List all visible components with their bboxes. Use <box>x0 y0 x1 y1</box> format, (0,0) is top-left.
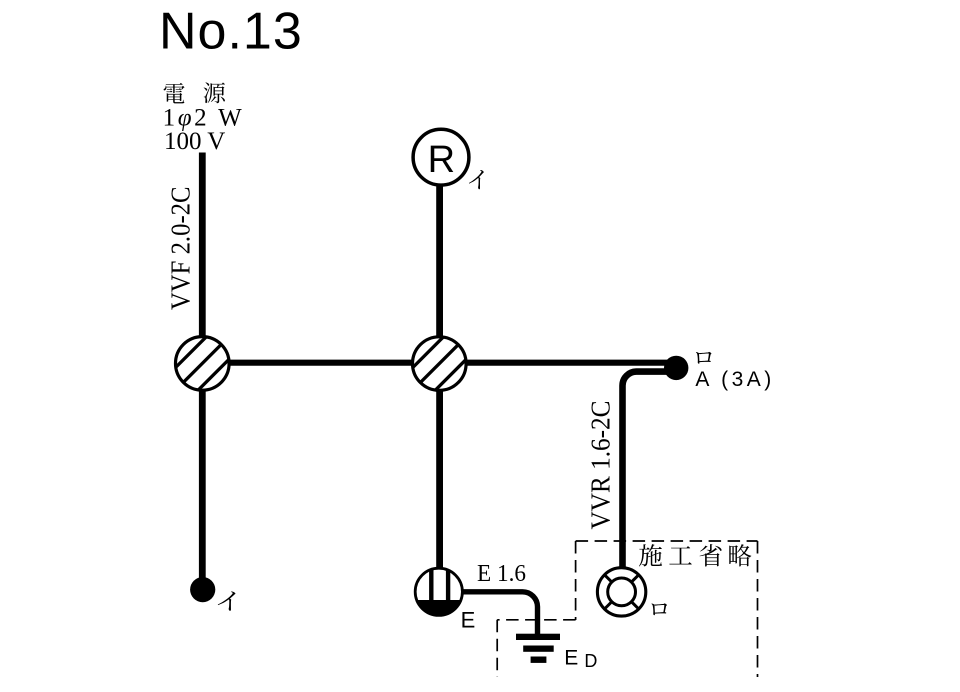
lamp R (circle symbol) <box>413 129 469 185</box>
svg-text:VVF 2.0-2C: VVF 2.0-2C <box>165 187 195 311</box>
lamp-position dot イ (bottom left) <box>190 577 215 602</box>
wire VVR curve from dot to ceiling light <box>623 372 671 567</box>
svg-text:100 V: 100 V <box>164 128 225 155</box>
wire R to J2 to outlet (center vertical) <box>436 185 443 570</box>
svg-text:D: D <box>584 651 597 671</box>
ceiling light ロ (double circle with spokes) <box>597 568 645 616</box>
wire source to junction J1 to lamp-dot イ (left vertical) <box>199 153 206 590</box>
wire main horizontal J1-J2-dot <box>202 360 676 366</box>
label 施工省略 <box>639 544 751 566</box>
node dot with pull switch A (3A) <box>664 356 688 380</box>
label ED <box>564 646 597 671</box>
label 電源 (power source) <box>164 82 225 103</box>
svg-text:E: E <box>461 608 476 633</box>
label ロ (near ceiling light) <box>651 603 666 615</box>
junction box J1 (hatched circle) <box>163 324 242 403</box>
label イ (near bottom dot) <box>218 591 236 610</box>
label イ (near R) <box>469 170 484 189</box>
junction box J2 (hatched circle) <box>400 324 479 403</box>
outlet with earth (circle, two bars, filled bottom) <box>414 566 464 618</box>
svg-text:R: R <box>428 139 455 181</box>
svg-text:No.13: No.13 <box>159 3 303 61</box>
wire E ground lead from outlet <box>461 592 538 635</box>
label ロ (near A) <box>696 352 711 364</box>
ground electrode symbol ED <box>516 634 560 663</box>
svg-text:E 1.6: E 1.6 <box>477 560 526 587</box>
dashed boundary 施工省略 area <box>497 541 757 677</box>
svg-text:E: E <box>564 646 578 669</box>
svg-text:A (3A): A (3A) <box>695 368 774 391</box>
svg-text:VVR 1.6-2C: VVR 1.6-2C <box>586 401 616 530</box>
